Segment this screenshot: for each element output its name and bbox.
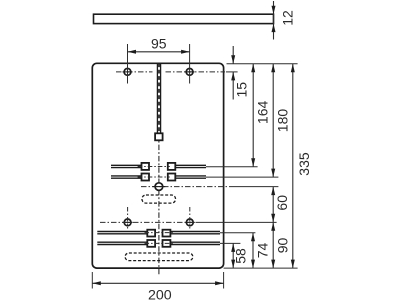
dimension 164 arrow up (251, 64, 255, 72)
dimension 200 right extension line (223, 272, 225, 289)
svg-text:200: 200 (148, 287, 172, 300)
top hole right cross line (185, 71, 195, 73)
dimension 90 line (272, 222, 274, 268)
top hole left cross line (123, 71, 133, 73)
rail row2 right square (168, 174, 176, 181)
lower holes horizontal centerline (100, 221, 196, 223)
rail row2 right slot lines (175, 175, 206, 177)
dimension 335 arrow up (291, 64, 295, 72)
lower hole left (124, 219, 131, 226)
rail row4 left square (147, 240, 155, 247)
dimension 12 line (273, 1, 275, 40)
rail row1 right slot lines (175, 164, 206, 166)
rail row1 right square (168, 163, 176, 170)
dimension 180 arrow down (271, 169, 275, 178)
bottom edge extension line (224, 267, 298, 269)
dimension 12 arrow top (272, 6, 276, 15)
dimension 200 line (92, 282, 223, 284)
dimension 335 line (292, 64, 294, 268)
svg-text:180: 180 (274, 109, 290, 133)
lower hole right vertical centerline (189, 207, 191, 229)
dimension 335 arrow down (291, 260, 295, 269)
rail row2 extension line (206, 176, 278, 178)
dimension 95 arrow right (181, 50, 190, 54)
svg-text:12: 12 (279, 10, 295, 26)
dimension 60 line (272, 187, 274, 223)
plate outline (92, 63, 223, 268)
dimension 200 left extension line (91, 272, 93, 289)
dimension 58 arrow up (231, 243, 235, 252)
dimension 15 lower line (232, 72, 234, 100)
dashed obround cutout upper (142, 195, 176, 203)
dimension 74 line (252, 233, 254, 268)
top hole right (186, 69, 193, 76)
top slot left edge (156, 63, 158, 133)
top hole left vertical centerline (127, 44, 129, 84)
dimension 60 arrow up (271, 187, 275, 196)
circle horizontal centerline (141, 186, 230, 188)
lower holes centerline extension (196, 221, 277, 223)
svg-text:95: 95 (151, 35, 167, 51)
svg-text:58: 58 (232, 248, 248, 264)
rail row3 right slot lines (170, 231, 220, 233)
dimension 180 line (272, 64, 274, 177)
dimension 95 line (128, 51, 190, 53)
top hole right vertical centerline (189, 44, 191, 84)
top hole left (124, 69, 131, 76)
rail row1 extension line (206, 166, 258, 168)
rail row3 center dash (145, 232, 175, 234)
dimension 12 arrow bottom (272, 24, 276, 32)
lower hole left cross line (123, 221, 133, 223)
dimension 200 arrow right (215, 281, 224, 285)
circle cross line (153, 186, 166, 188)
lower hole right cross line (185, 221, 195, 223)
dashed obround cutout lower (125, 253, 193, 261)
rail row2 center dash (138, 176, 170, 178)
top slot center dashes (158, 63, 160, 133)
rail row4 right slot lines (170, 241, 220, 243)
rail row2 left square (142, 174, 150, 181)
svg-text:335: 335 (296, 152, 312, 176)
center vertical dash-dot line (158, 133, 160, 274)
dimension 164 line (252, 64, 254, 167)
dimension 95 arrow left (128, 50, 137, 54)
dimension 74 arrow up (251, 233, 255, 242)
dimension 180 arrow up (271, 64, 275, 72)
rail row3 right square (163, 230, 171, 237)
dimension 200 arrow left (92, 281, 101, 285)
rail row1 left slot lines (111, 164, 142, 166)
dimension 58 line (232, 243, 234, 268)
top holes horizontal centerline left part (116, 71, 153, 73)
top slot square hole (155, 133, 163, 140)
rail row3 left slot lines (97, 231, 147, 233)
rail row4 extension line (220, 242, 240, 244)
dimension 164 arrow down (251, 158, 255, 167)
rail row4 right square (163, 240, 171, 247)
svg-text:90: 90 (274, 238, 290, 254)
rail row4 left slot lines (97, 241, 147, 243)
top edge extension line (227, 63, 298, 65)
lower hole right (186, 219, 193, 226)
dimension 15 upper line (232, 46, 234, 64)
svg-text:164: 164 (255, 101, 271, 125)
dimension 60 arrow down (271, 214, 275, 223)
rail row4 center dash (145, 242, 175, 244)
svg-text:15: 15 (233, 82, 249, 98)
svg-text:74: 74 (255, 243, 271, 259)
dimension 15 arrow down (231, 55, 235, 64)
dimension 74 arrow down (251, 260, 255, 269)
rail row3 left square (147, 230, 155, 237)
rail row2 left slot lines (111, 175, 142, 177)
rail row3 extension line (220, 232, 255, 234)
center circle hole (155, 183, 163, 191)
svg-text:60: 60 (274, 195, 290, 211)
lower hole left vertical centerline (127, 207, 129, 229)
dimension 90 arrow down (271, 260, 275, 269)
rail row1 left square (142, 163, 150, 170)
dimension 58 arrow down (231, 260, 235, 269)
circle centerline extension (230, 186, 278, 188)
top slot right edge (160, 63, 162, 133)
dimension 15 arrow up (231, 72, 235, 81)
top holes centerline extension (226, 71, 238, 73)
dimension 90 arrow up (271, 222, 275, 231)
side view bar (94, 14, 274, 23)
rail row1 center dash (138, 165, 170, 167)
top holes horizontal centerline right part (166, 71, 226, 73)
